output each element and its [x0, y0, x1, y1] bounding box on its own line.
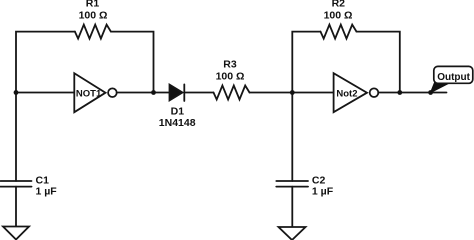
output callout box: [434, 66, 473, 83]
wire C1 branch vertical: [15, 93, 17, 182]
svg-text:R1: R1: [86, 0, 100, 10]
svg-text:1 µF: 1 µF: [36, 185, 58, 197]
wire R3 to node IN2: [250, 92, 334, 94]
op-amp U1 NOT1 gate triangle: [74, 73, 105, 112]
wire C2 branch vertical: [291, 93, 293, 182]
node junction dot IN2: [290, 90, 295, 95]
wire left vertical loop2 (node IN2 up to top feedback): [292, 32, 320, 93]
capacitor C1 bottom plate: [1, 186, 32, 188]
wire top right of R2 down to Not2 output: [357, 32, 400, 93]
svg-text:R2: R2: [332, 0, 346, 10]
NOT1 bubble: [108, 88, 117, 97]
wire C1 to ground: [15, 187, 17, 227]
svg-text:1N4148: 1N4148: [159, 117, 196, 129]
wire NOT1 output to diode: [117, 92, 170, 94]
capacitor C1 top plate: [1, 180, 32, 182]
node junction dot Output probe: [428, 90, 433, 95]
ground symbol 1: [3, 227, 29, 240]
wire diode to R3: [184, 92, 213, 94]
wire Not2 output to output end: [378, 92, 446, 94]
svg-text:100 Ω: 100 Ω: [216, 71, 245, 83]
svg-text:D1: D1: [171, 105, 185, 117]
svg-text:R3: R3: [223, 59, 237, 71]
resistor R2: [321, 25, 357, 39]
node junction dot NOT1 output feedback: [151, 90, 156, 95]
svg-text:100 Ω: 100 Ω: [324, 10, 353, 22]
capacitor C2 top plate: [276, 180, 308, 182]
wire C2 to ground: [291, 187, 293, 227]
node junction dot IN1: [14, 90, 19, 95]
resistor R3: [214, 86, 250, 100]
output callout tail: [430, 81, 451, 94]
capacitor C2 bottom plate: [276, 186, 308, 188]
wire NOT1 input: [16, 92, 74, 94]
op-amp U2 Not2 gate triangle: [334, 73, 367, 112]
resistor R1: [75, 25, 111, 39]
wire top right of R1 down to NOT1 output: [111, 32, 154, 93]
svg-text:100 Ω: 100 Ω: [79, 10, 108, 22]
svg-text:1 µF: 1 µF: [312, 185, 334, 197]
diode D1 triangle: [170, 85, 183, 101]
wire left vertical (node IN1 to top feedback): [16, 32, 75, 93]
node junction dot Not2 output feedback: [397, 90, 402, 95]
ground symbol 2: [279, 227, 306, 240]
svg-text:Output: Output: [437, 72, 470, 83]
diode D1 cathode bar: [183, 84, 185, 101]
svg-text:NOT1: NOT1: [76, 88, 102, 99]
svg-text:Not2: Not2: [336, 89, 357, 100]
Not2 bubble: [370, 88, 379, 97]
